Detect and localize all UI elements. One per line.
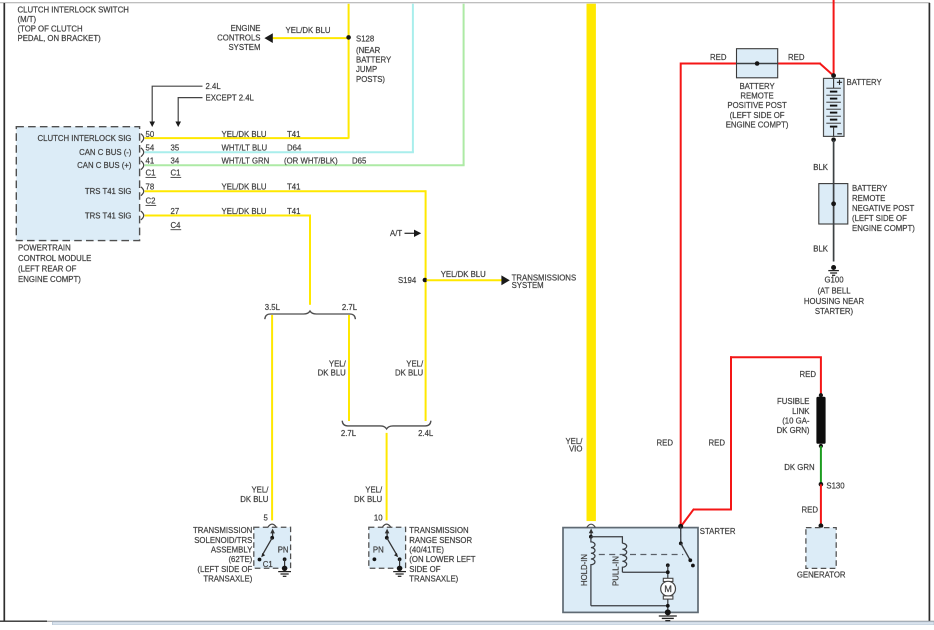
battery remote positive post [737,49,778,78]
wire BLK battery negative to remote negative post [831,138,836,184]
PCM connector pin 78 [141,183,154,196]
svg-text:BLK: BLK [813,163,829,172]
connector pin 10 [374,513,391,527]
wire YEL/DK BLU from PCM pin 78 down to S194 and brace [145,190,426,421]
label DK GRN [784,463,814,472]
svg-text:(LEFT SIDE OF: (LEFT SIDE OF [852,214,907,223]
svg-text:(ON LOWER LEFT: (ON LOWER LEFT [409,555,476,564]
svg-text:YEL/: YEL/ [329,359,347,368]
connector labels C1 C1 [146,169,182,178]
svg-text:RED: RED [800,370,817,379]
connector label C4 [171,221,182,230]
caption transmission range sensor [409,526,476,584]
svg-text:HOLD-IN: HOLD-IN [580,554,589,586]
off-page reference: TRANSMISSIONS SYSTEM [512,274,577,291]
label YEL/DK BLU [286,26,331,35]
label YEL/DK BLU (S194 branch) [441,270,486,279]
label RED (generator feed) [709,438,726,447]
svg-text:RED: RED [657,438,674,447]
svg-text:YEL/DK BLU: YEL/DK BLU [286,26,331,35]
svg-text:C4: C4 [171,221,182,230]
transmission range sensor (40/41TE) [369,527,406,568]
svg-text:TRS T41 SIG: TRS T41 SIG [85,211,132,220]
label RED (right of battery post) [788,53,805,62]
svg-text:CAN C BUS (-): CAN C BUS (-) [79,148,132,157]
label YEL/ DK BLU (2.7L branch) [318,359,347,377]
callout EXCEPT 2.4L (engine variant pointer) [175,93,254,127]
solenoid switch blade to C1 [258,538,273,562]
svg-text:(AT BELL: (AT BELL [817,287,851,296]
svg-text:A/T: A/T [390,229,402,238]
wire RED S130 to generator [820,484,822,525]
hold-in coil L1 [591,537,595,606]
wire WHT/LT BLU CAN C BUS (-) from top to PCM pins 54/35 [145,4,414,153]
label YEL/ DK BLU (range sensor branch) [354,486,383,504]
svg-text:CAN C BUS (+): CAN C BUS (+) [77,161,132,170]
svg-text:CLUTCH INTERLOCK SWITCH: CLUTCH INTERLOCK SWITCH [18,5,129,14]
PCM connector pins 41 / 34 [141,157,180,170]
label YEL/ DK BLU (3.5L branch) [240,486,269,504]
svg-text:(62TE): (62TE) [228,555,252,564]
svg-text:(OR WHT/BLK): (OR WHT/BLK) [284,157,338,166]
PCM connector pin 50 [141,130,155,142]
junction at battery positive terminal [831,73,836,78]
starter motor M1 [661,578,676,599]
svg-text:DK GRN: DK GRN [784,463,814,472]
svg-text:(TOP OF CLUTCH: (TOP OF CLUTCH [18,25,83,34]
starter solenoid switch contact from B+ [678,524,695,567]
svg-text:T41: T41 [287,207,300,216]
svg-text:DK BLU: DK BLU [354,495,383,504]
label RED (left of battery post) [710,53,727,62]
label YEL/ VIO [565,437,583,454]
battery B1 [824,78,883,136]
svg-text:YEL/DK BLU: YEL/DK BLU [441,270,486,279]
svg-text:DK BLU: DK BLU [240,495,269,504]
svg-text:(M/T): (M/T) [18,15,37,24]
svg-text:RED: RED [710,53,727,62]
wire YEL/DK BLU from clutch interlock switch (top) to S128 and PCM pin 50 [145,4,349,139]
svg-text:ENGINE COMPT): ENGINE COMPT) [852,224,915,233]
PCM connector pins 54 / 35 [141,144,180,157]
wire pull-in coil to motor junction [622,571,667,573]
ground (range sensor) [393,572,406,577]
svg-text:REMOTE: REMOTE [852,194,885,203]
svg-text:C1: C1 [263,560,273,569]
svg-text:ENGINE COMPT): ENGINE COMPT) [18,275,81,284]
svg-text:SIDE OF: SIDE OF [409,565,440,574]
mechanical link (dashed) [599,554,683,556]
svg-text:EXCEPT 2.4L: EXCEPT 2.4L [206,93,255,102]
label BLK [813,163,829,172]
battery remote negative post [819,184,848,224]
solenoid PN contact to ground [278,546,289,571]
caption transmission solenoid/TRS assembly [193,526,253,584]
wire RED generator feed [681,356,821,526]
svg-text:DK BLU: DK BLU [318,369,347,378]
starter motor assembly box [563,527,736,612]
svg-text:CONTROLS: CONTROLS [217,34,260,43]
svg-text:STARTER: STARTER [700,527,736,536]
svg-text:TRANSMISSION: TRANSMISSION [193,526,252,535]
svg-text:YEL/: YEL/ [365,486,383,495]
wire YEL/DK BLU from S128 to engine controls system [272,37,348,39]
svg-text:BATTERY: BATTERY [847,78,883,87]
svg-text:STARTER): STARTER) [815,307,854,316]
svg-text:M: M [664,584,672,594]
svg-text:C1: C1 [171,169,181,178]
splice S128 [346,34,392,83]
svg-text:DK BLU: DK BLU [395,369,424,378]
svg-text:RANGE SENSOR: RANGE SENSOR [409,536,472,545]
off-page reference: ENGINE CONTROLS SYSTEM [217,24,260,52]
powertrain control module U1 (PCM) [16,127,139,241]
svg-text:50: 50 [146,130,155,139]
svg-text:3.5L: 3.5L [265,303,281,312]
svg-text:2.4L: 2.4L [418,429,434,438]
svg-text:POSTS): POSTS) [356,75,385,84]
label PULL-IN [612,556,621,586]
svg-text:PULL-IN: PULL-IN [612,556,621,586]
svg-text:SYSTEM: SYSTEM [228,43,260,52]
svg-text:T41: T41 [287,130,300,139]
label RED (to generator) [802,506,819,515]
caption battery remote negative post [852,184,915,233]
svg-text:2.7L: 2.7L [342,303,358,312]
svg-text:S194: S194 [398,276,417,285]
svg-text:SOLENOID/TRS: SOLENOID/TRS [194,536,252,545]
label YEL/DK BLU T41 (pin 78 row) [222,183,301,192]
motor to ground wire [666,599,670,612]
arrow to engine controls system [264,33,272,43]
svg-text:POWERTRAIN: POWERTRAIN [18,244,71,253]
svg-text:BATTERY: BATTERY [739,82,775,91]
svg-text:35: 35 [171,144,180,153]
solenoid C1 label [263,560,273,569]
svg-text:D64: D64 [287,144,302,153]
ground (solenoid assembly) [278,572,291,577]
svg-text:BLK: BLK [813,245,829,254]
svg-text:POSITIVE POST: POSITIVE POST [727,101,787,110]
svg-text:S130: S130 [826,481,845,490]
wire YEL/DK BLU from PCM pin 27 down to engine-variant brace [145,215,310,305]
note: clutch interlock switch location [18,5,129,43]
svg-text:YEL/: YEL/ [406,359,424,368]
wire RED battery positive feed to starter (B+) [681,0,835,525]
svg-text:G100: G100 [824,275,844,284]
svg-text:WHT/LT GRN: WHT/LT GRN [222,157,270,166]
svg-text:TRANSMISSION: TRANSMISSION [409,526,468,535]
svg-text:YEL/DK BLU: YEL/DK BLU [222,130,267,139]
wire DK GRN fusible link to S130 [820,446,822,484]
label BLK (to G100) [813,245,829,254]
svg-text:D65: D65 [352,157,367,166]
wire YEL/DK BLU 2.7L branch down to merge brace [348,315,350,421]
label YEL/DK BLU T41 (pin 50 row) [222,130,301,139]
wire YEL/DK BLU merged branch down to transmission range sensor [386,433,388,521]
label WHT/LT GRN (OR WHT/BLK) D65 [222,157,367,166]
connector label C2 [146,197,157,206]
generator G1 [797,523,846,579]
wire BLK negative post to G100 [833,224,835,262]
svg-text:(LEFT SIDE OF: (LEFT SIDE OF [730,111,785,120]
ground G100 [804,265,865,316]
wire YEL/DK BLU 3.5L branch down to transmission solenoid assembly [271,315,273,520]
callout 2.4L (engine variant pointer) [149,82,221,127]
wire to pull-in coil [591,537,623,544]
wire hold-in coil return to motor ground [591,605,668,607]
label HOLD-IN [580,554,589,586]
solenoid switch common arrow [270,529,275,540]
brace merge 2.7L / 2.4L [341,421,434,438]
connector at starter (YEL/VIO feed) [587,524,596,527]
wire WHT/LT GRN CAN C BUS (+) from top to PCM pins 41/34 [145,4,465,165]
svg-text:REMOTE: REMOTE [740,92,773,101]
svg-text:VIO: VIO [569,445,582,454]
svg-text:2.7L: 2.7L [341,429,357,438]
svg-text:TRANSAXLE): TRANSAXLE) [203,575,252,584]
arrow to transmissions system [501,275,509,285]
caption battery remote positive post [726,82,789,130]
svg-text:TRS T41 SIG: TRS T41 SIG [85,187,132,196]
svg-text:DK GRN): DK GRN) [777,426,810,435]
svg-text:PN: PN [373,546,384,555]
svg-text:CLUTCH INTERLOCK SIG: CLUTCH INTERLOCK SIG [37,134,131,143]
wire YEL/VIO thick feed from top to starter solenoid [587,4,596,521]
svg-text:54: 54 [146,144,155,153]
svg-text:YEL/: YEL/ [251,486,269,495]
label YEL/ DK BLU (A/T branch) [395,359,424,377]
svg-text:(LEFT REAR OF: (LEFT REAR OF [18,265,77,274]
svg-text:JUMP: JUMP [356,65,377,74]
splice S130 [819,481,846,490]
label RED (starter feed) [657,438,674,447]
svg-text:27: 27 [171,207,180,216]
svg-text:CONTROL MODULE: CONTROL MODULE [18,254,91,263]
PCM caption [18,244,91,285]
svg-text:ASSEMBLY: ASSEMBLY [211,546,253,555]
starter solenoid input arrow [589,529,594,539]
svg-text:HOUSING NEAR: HOUSING NEAR [804,297,865,306]
label WHT/LT BLU D64 [222,144,302,153]
svg-text:(40/41TE): (40/41TE) [409,546,444,555]
svg-text:LINK: LINK [792,407,810,416]
motor terminal junctions [666,563,670,578]
svg-text:ENGINE COMPT): ENGINE COMPT) [726,121,789,130]
svg-text:78: 78 [146,183,155,192]
svg-text:PN: PN [278,546,289,555]
range sensor switch to ground [397,559,402,571]
fusible link F1 (10 GA- DK GRN) [777,393,826,448]
svg-text:(NEAR: (NEAR [356,46,381,55]
wire YEL/DK BLU from S194 to transmissions system [427,279,502,281]
pull-in coil L2 [622,543,626,572]
svg-text:GENERATOR: GENERATOR [797,570,846,579]
svg-text:T41: T41 [287,183,300,192]
svg-text:5: 5 [263,513,268,522]
svg-text:FUSIBLE: FUSIBLE [777,397,810,406]
svg-text:RED: RED [788,53,805,62]
svg-text:41: 41 [146,157,155,166]
svg-text:PEDAL, ON BRACKET): PEDAL, ON BRACKET) [18,34,102,43]
svg-text:34: 34 [171,157,180,166]
PCM connector pin 27 [141,207,179,220]
svg-text:SYSTEM: SYSTEM [512,281,544,290]
svg-text:BATTERY: BATTERY [356,56,392,65]
svg-text:ENGINE: ENGINE [231,24,261,33]
svg-text:(LEFT SIDE OF: (LEFT SIDE OF [197,565,252,574]
svg-text:YEL/DK BLU: YEL/DK BLU [222,207,267,216]
connector pin 5 [263,513,276,527]
range sensor switch common arrow [385,529,390,540]
svg-text:BATTERY: BATTERY [852,184,888,193]
svg-text:S128: S128 [356,34,374,43]
svg-text:YEL/DK BLU: YEL/DK BLU [222,183,267,192]
brace split 3.5L / 2.7L [265,303,358,319]
svg-text:RED: RED [709,438,726,447]
svg-text:10: 10 [374,513,383,522]
range sensor switch blade to ground contact [387,538,402,561]
svg-text:RED: RED [802,506,819,515]
svg-text:C1: C1 [146,169,156,178]
svg-text:NEGATIVE POST: NEGATIVE POST [852,204,914,213]
splice S194 [398,276,427,285]
svg-text:C2: C2 [146,197,156,206]
transmission solenoid/TRS assembly (62TE) [254,527,291,568]
range sensor PN contact [373,546,384,562]
ground (starter case) [659,609,677,620]
label RED (fusible link top) [800,370,817,379]
svg-text:(10 GA-: (10 GA- [782,416,810,425]
svg-text:2.4L: 2.4L [206,82,222,91]
svg-text:TRANSAXLE): TRANSAXLE) [409,575,458,584]
label YEL/DK BLU T41 (pin 27 row) [222,207,301,216]
svg-text:WHT/LT BLU: WHT/LT BLU [222,144,268,153]
label A/T with arrow [390,229,421,238]
